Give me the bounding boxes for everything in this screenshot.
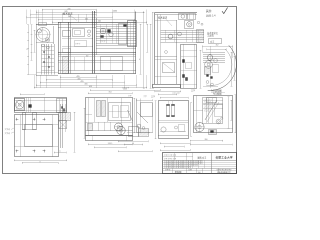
- V6 right dimension line: [74, 112, 76, 153]
- V3 dimension lines above: [203, 45, 233, 58]
- svg-text:312: 312: [216, 45, 219, 47]
- V7 right gear boxes: [109, 98, 133, 135]
- V9 lower details: [160, 125, 186, 133]
- V1 left lower hatch block: [63, 57, 69, 74]
- svg-text:1035: 1035: [123, 89, 127, 91]
- svg-text:比例: 1:4: 比例: 1:4: [206, 14, 216, 18]
- V8 bottom dimensions: [118, 140, 153, 152]
- V3 separating dim line: [200, 50, 202, 89]
- V2 tall column: [181, 44, 197, 89]
- svg-text:318.5: 318.5: [108, 143, 113, 145]
- V2 lower body details: [155, 51, 177, 77]
- V1 bottom dimension lines: [34, 75, 147, 89]
- V2 middle shaft details: [161, 30, 204, 43]
- V9 left dimension chain: [155, 101, 157, 140]
- V1 top-right dimension line: [95, 11, 144, 13]
- V2 side view outline: [153, 12, 198, 87]
- V8-V11 area tiny labels: [122, 85, 132, 97]
- V2 top fixture boxes: [179, 14, 204, 29]
- title block text: [164, 154, 233, 174]
- V4 bottom dimensions: [190, 139, 233, 145]
- V9 outline: [158, 101, 189, 139]
- V1 right shaft cluster: [96, 21, 137, 49]
- V3 view label: [213, 91, 222, 95]
- V8 shaft boxes: [127, 127, 150, 137]
- V7 lower handwheel: [115, 123, 123, 131]
- V10 narrow column view: [61, 104, 66, 148]
- V6-V10 bracket hatch box: [59, 113, 71, 121]
- V9 vertical bars with caps: [167, 101, 175, 117]
- svg-text:8: 8: [27, 49, 28, 51]
- V2 bottom dimension lines: [151, 90, 181, 98]
- technical requirement note box: [207, 31, 222, 44]
- V7 outline: [86, 98, 133, 136]
- V9 top dimension and label: [160, 91, 189, 99]
- svg-text:1035: 1035: [113, 11, 117, 13]
- svg-text:415: 415: [89, 86, 92, 88]
- V4 lower-left handwheel: [195, 122, 204, 131]
- V1 headstock outline: [36, 23, 58, 77]
- V1 technical note label: [63, 11, 77, 20]
- middle band top dimension: [90, 89, 161, 91]
- title block outer: [163, 153, 237, 174]
- V5 bed outline: [14, 98, 67, 113]
- V1 headstock gear circle: [36, 27, 51, 42]
- svg-text:14: 14: [132, 143, 134, 145]
- V3 core machinery: [203, 46, 225, 88]
- V3 right dimension chains: [231, 52, 236, 87]
- drawing border frame: [3, 7, 237, 174]
- V10 cross box: [59, 121, 68, 129]
- svg-text:354: 354: [109, 92, 112, 94]
- svg-text:机床总装配图文字: 机床总装配图文字: [217, 171, 231, 174]
- V9 bottom dimension lines: [160, 142, 191, 151]
- V1 top dimension lines: [27, 8, 148, 24]
- V9 right dimension chain: [190, 103, 192, 137]
- V1 right edge verticals: [134, 12, 136, 74]
- V7 hatched columns: [95, 98, 108, 122]
- svg-text:技术要求: 技术要求: [63, 11, 73, 15]
- svg-text:4: 4: [139, 59, 140, 61]
- title block grid: [163, 153, 236, 174]
- V1 center small boxes: [62, 29, 93, 53]
- V7 top dimension line: [88, 92, 133, 95]
- V5 bed verticals and legs: [22, 98, 67, 130]
- V7 bottom band details: [88, 122, 111, 131]
- svg-text:415: 415: [85, 84, 88, 86]
- V1 dark vertical band: [93, 11, 97, 74]
- V4 right dimension chains: [228, 95, 237, 134]
- V2 technical note label with leader: [158, 15, 172, 26]
- V7 bottom dimension lines: [88, 143, 133, 148]
- V5 top dimension: [20, 93, 45, 95]
- V1 lower body: [58, 57, 136, 74]
- V6 left leader labels: [5, 127, 15, 135]
- V6 plus marks: [16, 118, 46, 153]
- V3 large arc: [206, 45, 236, 90]
- svg-text:260: 260: [205, 139, 208, 141]
- V1-V2 middle dimension chains: [139, 12, 154, 89]
- svg-text:241: 241: [68, 8, 71, 10]
- V1 top band: [58, 23, 136, 28]
- V1 top extension lines center: [63, 14, 87, 22]
- V6 plan outline: [14, 115, 59, 158]
- svg-text:其余:: 其余:: [206, 9, 212, 13]
- V11 small view: [137, 94, 153, 133]
- V4 bottom bracket cluster: [209, 130, 217, 135]
- V7 left dimension chain: [84, 108, 92, 139]
- surface finish note (qiyu + check): [206, 7, 228, 17]
- V1 left dimension chain: [27, 25, 37, 75]
- V1 gear train column: [37, 44, 59, 76]
- V7 base: [86, 136, 133, 142]
- V10 bottom dimension: [54, 150, 67, 154]
- V4 core with hatching: [194, 98, 224, 124]
- V5 motor end box: [15, 99, 25, 111]
- svg-text:文: 文: [59, 150, 61, 153]
- V1 center verticals: [59, 22, 71, 74]
- V4 outline: [194, 96, 234, 134]
- svg-text:415: 415: [81, 81, 84, 83]
- V11 left dimension: [133, 98, 135, 133]
- V5V6 bottom dimension lines: [14, 159, 67, 164]
- V4 section label: [191, 88, 225, 92]
- page background: [0, 0, 240, 180]
- svg-text:合肥工业大学: 合肥工业大学: [215, 155, 232, 160]
- V8 gear circle: [117, 126, 125, 134]
- V1 mid rails: [58, 53, 136, 58]
